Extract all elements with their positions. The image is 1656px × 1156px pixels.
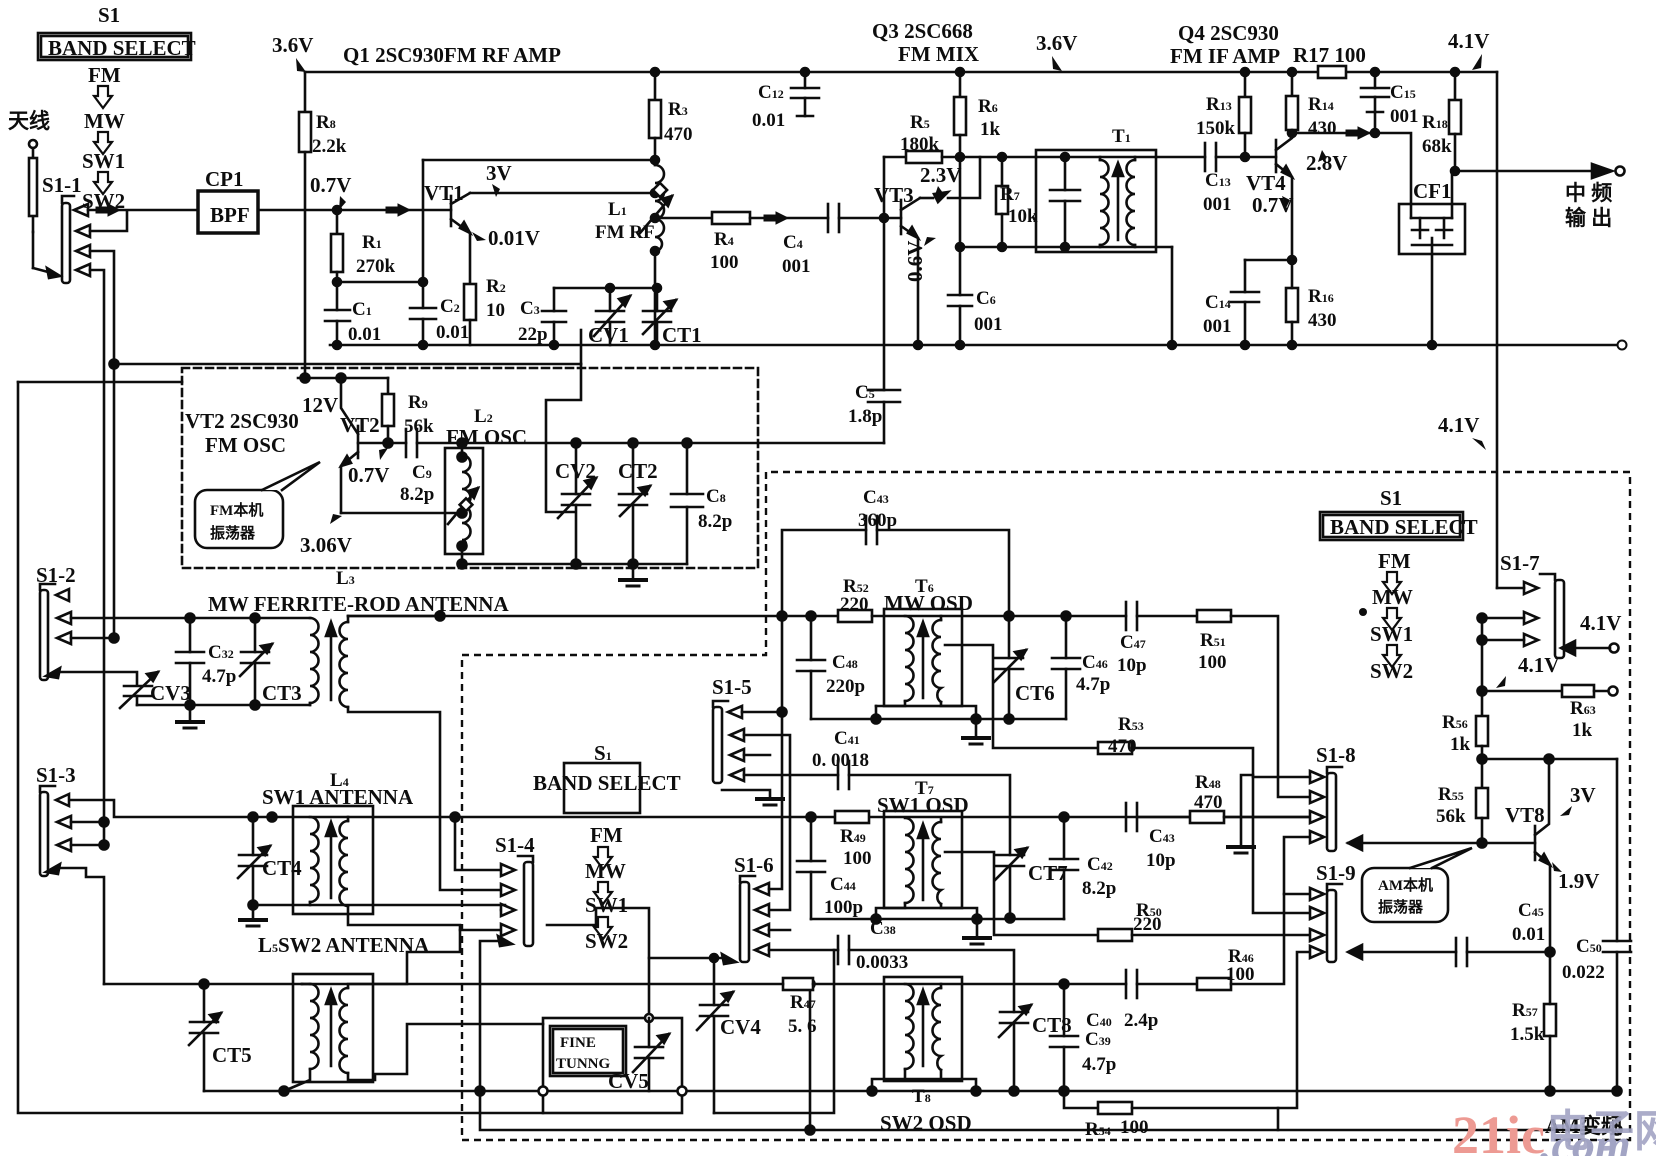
- box FINE TUNING assembly: [543, 1018, 682, 1113]
- resistor R57 1.5k: [1544, 1004, 1556, 1036]
- node dots on top rail: [651, 68, 659, 76]
- svg-text:4.1V: 4.1V: [1448, 29, 1489, 53]
- wire: R1 bottom to C2 node: [337, 281, 423, 284]
- svg-text:CT2: CT2: [618, 459, 658, 483]
- trimmer CT1: [656, 288, 659, 311]
- svg-text:0.6V: 0.6V: [903, 241, 927, 282]
- transformer T1: [1036, 150, 1156, 252]
- svg-text:SW1: SW1: [1370, 622, 1413, 646]
- svg-text:MW: MW: [1372, 585, 1413, 609]
- trimmer CT3: [251, 614, 260, 623]
- resistor R7 10k: [1001, 157, 1004, 186]
- svg-text:3.06V: 3.06V: [300, 533, 352, 557]
- transformer L3 MW ferrite rod antenna: [190, 617, 310, 620]
- svg-text:3V: 3V: [1570, 783, 1596, 807]
- svg-text:21ic: 21ic: [1452, 1105, 1545, 1156]
- switch S1-4: [524, 862, 533, 946]
- svg-text:FINE: FINE: [560, 1035, 596, 1051]
- wire: S1-4 c1 feed from SW1 line: [455, 817, 501, 870]
- resistor R49 100: [835, 811, 869, 823]
- svg-text:MW FERRITE-ROD ANTENNA: MW FERRITE-ROD ANTENNA: [208, 592, 509, 616]
- capacitor C9 8.2p: [405, 429, 408, 457]
- capacitor C41 0.0018: [837, 761, 840, 789]
- switch S1-6: [740, 882, 749, 962]
- switch S1 band select label box (right): [1320, 512, 1463, 540]
- svg-text:SW2 OSD: SW2 OSD: [880, 1111, 972, 1135]
- switch S1 band select label box (center): [564, 763, 640, 813]
- svg-text:CV2: CV2: [555, 459, 596, 483]
- svg-text:SW1: SW1: [82, 149, 125, 173]
- svg-text:天线: 天线: [8, 109, 50, 133]
- capacitor C47 10p (series in MW line): [1125, 602, 1128, 630]
- svg-text:56k: 56k: [404, 416, 434, 437]
- svg-text:FM: FM: [1378, 549, 1411, 573]
- resistor R53 470: [1098, 742, 1132, 754]
- svg-text:2.8V: 2.8V: [1306, 151, 1347, 175]
- wire: S1-8 c1 from R53-route ground pair: [1253, 776, 1310, 779]
- svg-text:FM IF AMP: FM IF AMP: [1170, 44, 1280, 68]
- speech bubble FM osc callout: [195, 490, 283, 548]
- ground below CT2: [632, 564, 635, 580]
- switch S1-1: [62, 203, 70, 283]
- svg-text:0.01V: 0.01V: [488, 226, 540, 250]
- wire: VT1 collector line to L1 tap: [470, 192, 655, 195]
- capacitor C39 4.7p: [1060, 980, 1069, 989]
- svg-text:FM MIX: FM MIX: [898, 42, 979, 66]
- svg-text:8.2p: 8.2p: [698, 511, 732, 532]
- svg-text:VT8: VT8: [1505, 803, 1545, 827]
- switch S1-7: [1555, 580, 1564, 658]
- inductor L1 FM RF: [654, 72, 657, 100]
- svg-text:Q4 2SC930: Q4 2SC930: [1178, 21, 1279, 45]
- wire: T7 tank bottom rail: [811, 918, 1064, 921]
- wire: VT8 collector supply line: [1482, 758, 1617, 761]
- wire: L5 secondary top routing to S1-4 c4: [348, 930, 460, 988]
- wire: S1-1 top contact to BPF: [88, 209, 198, 212]
- svg-text:BAND SELECT: BAND SELECT: [1330, 515, 1478, 539]
- trimmer CT6: [1008, 616, 1011, 658]
- filter CP1 BPF box: [198, 191, 258, 233]
- wire: S1-6 c3 stub: [769, 929, 790, 932]
- wire: S1-3 c2 to vertical: [71, 821, 104, 824]
- wire: T7 tank bottom shelf: [876, 903, 977, 919]
- resistor R47 5.6: [783, 978, 813, 990]
- svg-text:430: 430: [1308, 118, 1337, 139]
- svg-text:FM: FM: [88, 63, 121, 87]
- svg-text:CP1: CP1: [205, 167, 244, 191]
- svg-text:100: 100: [1226, 964, 1255, 985]
- svg-text:CV3: CV3: [150, 681, 191, 705]
- svg-text:220p: 220p: [826, 676, 865, 697]
- svg-text:CT7: CT7: [1028, 861, 1068, 885]
- wire: CV4 bottom link: [714, 950, 834, 1113]
- svg-text:0.7V: 0.7V: [310, 173, 351, 197]
- transistor VT8: [1534, 826, 1537, 860]
- svg-text:S1-2: S1-2: [36, 563, 76, 587]
- wire: S1-5 c1 to vertical: [742, 711, 782, 714]
- svg-text:Q3 2SC668: Q3 2SC668: [872, 19, 973, 43]
- svg-text:CF1: CF1: [1413, 179, 1452, 203]
- svg-text:MW OSD: MW OSD: [884, 591, 973, 615]
- transformer T7 SW1 OSD: [884, 811, 962, 908]
- wire: CT4 bottom line to S1-4: [253, 905, 505, 910]
- wire: emitter tap into L2: [341, 512, 462, 515]
- svg-text:CT4: CT4: [262, 856, 302, 880]
- trimmer CT4: [252, 817, 255, 855]
- svg-text:100: 100: [1120, 1117, 1149, 1138]
- capacitor C5 1.8p: [868, 389, 884, 392]
- svg-text:MW: MW: [585, 859, 626, 883]
- wire: S1-1 contact2 loop to main line: [90, 211, 127, 231]
- svg-text:10p: 10p: [1117, 655, 1147, 676]
- wire: BPF to VT1 base: [258, 209, 451, 212]
- svg-text:CV4: CV4: [720, 1015, 761, 1039]
- svg-text:0. 0018: 0. 0018: [812, 750, 869, 771]
- svg-text:BAND SELECT: BAND SELECT: [533, 771, 681, 795]
- svg-text:4.1V: 4.1V: [1518, 653, 1559, 677]
- svg-text:1k: 1k: [1572, 720, 1593, 741]
- wire: S1-1 contact3 long vertical: [90, 251, 114, 638]
- switch S1-5: [713, 707, 722, 783]
- svg-text:3.6V: 3.6V: [272, 33, 313, 57]
- capacitor C42 8.2p: [1060, 813, 1069, 822]
- wire: base feedback line to L1 top: [423, 159, 655, 162]
- wire: 3.6V top supply rail: [305, 71, 1318, 74]
- wire: FM OSC tank top line: [462, 442, 884, 445]
- trimmer CT5: [203, 984, 206, 1022]
- resistor R13 150k: [1244, 72, 1247, 97]
- trimmer CV1: [609, 288, 612, 311]
- svg-text:001: 001: [1203, 194, 1232, 215]
- resistor R51 100: [1197, 610, 1231, 622]
- wire: S1-6 wiper from CV5/CV4: [649, 957, 722, 960]
- resistor R5 180k: [884, 156, 906, 159]
- ground on MW tank bottom: [189, 705, 192, 722]
- svg-text:3.6V: 3.6V: [1036, 31, 1077, 55]
- svg-text:470: 470: [1108, 736, 1137, 757]
- antenna: [29, 140, 37, 148]
- svg-text:S1-3: S1-3: [36, 763, 76, 787]
- wire: SW1 antenna line: [71, 800, 1310, 817]
- transformer L4 SW1 antenna: [293, 806, 373, 914]
- svg-text:S1-8: S1-8: [1316, 743, 1356, 767]
- wire: S1-1 contact4 long vertical: [90, 270, 104, 845]
- wire: R5 left to C5 feed vertical: [883, 157, 886, 390]
- svg-text:100: 100: [710, 252, 739, 273]
- transistor VT1: [450, 196, 453, 226]
- svg-text:CT8: CT8: [1032, 1013, 1072, 1037]
- svg-text:FM本机: FM本机: [210, 501, 263, 519]
- wire: C3/CV1/CT1 top link: [554, 287, 657, 290]
- capacitor C48 220p: [810, 616, 813, 660]
- transformer T8 SW2 OSD: [884, 977, 962, 1081]
- svg-text:SW2: SW2: [585, 929, 628, 953]
- svg-text:MW: MW: [84, 109, 125, 133]
- svg-text:FM RF: FM RF: [595, 222, 655, 243]
- svg-text:68k: 68k: [1422, 136, 1452, 157]
- capacitor C45 0.01: [1455, 938, 1458, 966]
- wire: AM ground rail: [204, 1090, 1618, 1093]
- wire: IF output: [1455, 170, 1592, 173]
- capacitor C43 360p bypass: [782, 530, 866, 616]
- filter CF1: [1399, 204, 1465, 254]
- switch S1-8: [1327, 773, 1336, 851]
- capacitor C2 0.01: [422, 160, 425, 308]
- capacitor C14 001: [1245, 259, 1292, 262]
- transformer T6 MW OSD: [884, 609, 962, 706]
- svg-text:R17 100: R17 100: [1293, 43, 1366, 67]
- switch S1-3: [40, 792, 48, 876]
- wire: L4 secondary bottom to S1-4: [348, 906, 501, 930]
- svg-text:2.3V: 2.3V: [920, 163, 961, 187]
- svg-text:0.0033: 0.0033: [856, 952, 908, 973]
- svg-text:0.022: 0.022: [1562, 962, 1605, 983]
- resistor R1 270k: [336, 210, 339, 234]
- wire: SW2 antenna line: [104, 983, 302, 986]
- trimmer CT2: [632, 443, 635, 494]
- speech bubble AM osc callout: [1362, 868, 1448, 922]
- svg-text:L5SW2 ANTENNA: L5SW2 ANTENNA: [258, 933, 430, 957]
- svg-text:10: 10: [486, 300, 505, 321]
- svg-text:4.7p: 4.7p: [1082, 1054, 1116, 1075]
- transformer L5 SW2 antenna: [293, 974, 373, 1082]
- capacitor C44 100p: [810, 817, 813, 861]
- capacitor C50 0.022: [1616, 759, 1619, 941]
- wire: antenna to S1-1 wiper: [33, 268, 52, 273]
- wire: FM ground rail: [330, 344, 1617, 347]
- wire: S1-6 c1 to vertical: [769, 712, 782, 889]
- svg-text:BPF: BPF: [210, 203, 250, 227]
- svg-text:SW2: SW2: [82, 189, 125, 213]
- svg-text:振荡器: 振荡器: [210, 524, 256, 542]
- capacitor C6 001: [948, 294, 972, 297]
- svg-text:S1: S1: [98, 3, 120, 27]
- svg-text:470: 470: [664, 124, 693, 145]
- svg-text:TUNNG: TUNNG: [556, 1056, 611, 1072]
- svg-text:SW1 OSD: SW1 OSD: [877, 793, 969, 817]
- svg-text:4.7p: 4.7p: [202, 666, 236, 687]
- trimmer CV4: [713, 958, 716, 1005]
- text labels top: [272, 19, 1489, 72]
- trimmer CT7: [996, 854, 1024, 857]
- svg-text:1.8p: 1.8p: [848, 406, 882, 427]
- capacitor C43b 10p (series in SW1 line): [1125, 803, 1128, 831]
- resistor R52 220: [838, 610, 872, 622]
- svg-text:56k: 56k: [1436, 806, 1466, 827]
- dashed box FM OSC section: [182, 368, 758, 568]
- svg-text:100p: 100p: [824, 897, 863, 918]
- wire: S1-2 wiper to CV3: [58, 672, 137, 684]
- wire: L1 tap output to R4: [655, 217, 712, 220]
- wire: S1-4 wiper long route to SW2 OSD: [480, 941, 1278, 1130]
- svg-text:180k: 180k: [900, 134, 940, 155]
- resistor R2 10: [464, 284, 476, 320]
- wire: tank bottom line: [960, 246, 1172, 249]
- wire: base line S1-8 wiper to VT8: [1482, 842, 1535, 845]
- svg-text:1k: 1k: [980, 119, 1001, 140]
- wire: S1-3 wiper to SW2 line: [58, 868, 104, 984]
- transistor VT2: [357, 426, 360, 458]
- svg-text:AM本机: AM本机: [1378, 876, 1433, 894]
- svg-text:1.5k: 1.5k: [1510, 1024, 1545, 1045]
- svg-text:电子网: 电子网: [1546, 1107, 1656, 1156]
- wire: 4.1V rail after R17: [1346, 71, 1497, 74]
- svg-text:10p: 10p: [1146, 850, 1176, 871]
- svg-text:FM: FM: [590, 823, 623, 847]
- resistor R55 56k: [1476, 788, 1488, 818]
- wire: SW2 OSD line components: [806, 980, 815, 989]
- resistor R9 56k: [387, 378, 390, 394]
- svg-text:S1: S1: [1380, 486, 1402, 510]
- svg-text:2.2k: 2.2k: [312, 136, 347, 157]
- svg-text:2.4p: 2.4p: [1124, 1010, 1158, 1031]
- trimmer CV5: [645, 1014, 653, 1022]
- wire: branch to S1-9 c1: [1284, 893, 1310, 896]
- wire: FM OSC supply rail: [298, 377, 388, 380]
- wire: 4.1V vertical feed to AM section: [1496, 72, 1499, 588]
- trimmer CT8: [1000, 1011, 1028, 1014]
- capacitor C4 001: [827, 204, 830, 232]
- svg-text:4.1V: 4.1V: [1580, 611, 1621, 635]
- svg-text:100: 100: [843, 848, 872, 869]
- svg-text:VT2: VT2: [340, 413, 380, 437]
- transistor VT3: [900, 200, 903, 234]
- capacitor C38 0.0033: [837, 936, 840, 964]
- capacitor C46 4.7p: [1065, 616, 1068, 658]
- svg-text:3V: 3V: [486, 161, 512, 185]
- svg-text:CV1: CV1: [588, 323, 629, 347]
- svg-text:0.01: 0.01: [1512, 924, 1545, 945]
- wire: 4.1V feed to S1-7 c1: [1497, 587, 1524, 590]
- svg-text:4.7p: 4.7p: [1076, 674, 1110, 695]
- switch S1-9: [1327, 890, 1336, 962]
- resistor R50 220: [1098, 929, 1132, 941]
- inductor L2 FM OSC: [445, 448, 483, 554]
- capacitor C1 0.01: [325, 309, 350, 312]
- wire: S1-5 c4 to C41: [744, 774, 838, 777]
- trimmer CV3: [124, 685, 152, 688]
- svg-text:1k: 1k: [1450, 734, 1471, 755]
- svg-text:FM OSC: FM OSC: [446, 425, 527, 449]
- svg-text:VT3: VT3: [874, 183, 914, 207]
- svg-text:CT6: CT6: [1015, 681, 1055, 705]
- wire: S1-3 c3 stub: [71, 844, 104, 847]
- resistor R63 1k: [1482, 690, 1562, 693]
- svg-text:001: 001: [782, 256, 811, 277]
- svg-text:220: 220: [840, 594, 869, 615]
- svg-text:4.1V: 4.1V: [1438, 413, 1479, 437]
- capacitor C15 001: [1374, 72, 1377, 88]
- transistor VT4: [1275, 140, 1278, 172]
- wire: T7 tap to R50: [945, 852, 1098, 935]
- resistor R54 100: [1060, 1087, 1069, 1096]
- wire: SW2 main line: [302, 983, 783, 986]
- svg-text:振荡器: 振荡器: [1378, 898, 1424, 916]
- wire: SW1 OSD line components: [807, 813, 816, 822]
- svg-text:S1-4: S1-4: [495, 833, 535, 857]
- wire: CV1 link line into CV2: [114, 363, 581, 366]
- svg-text:CV5: CV5: [608, 1069, 649, 1093]
- wire: T6 tap to R53: [945, 645, 1098, 748]
- ground on T6 rail: [975, 719, 978, 736]
- trimmer CV2: [575, 443, 578, 494]
- wire: S1-2 c2 to MW tank line: [71, 617, 190, 620]
- svg-text:150k: 150k: [1196, 118, 1236, 139]
- dashed AM section box: [462, 472, 1630, 1140]
- wire: S1-5 c3 stub: [744, 754, 770, 757]
- svg-text:001: 001: [1203, 316, 1232, 337]
- capacitor C40 2.4p (series in SW2 line): [1125, 970, 1128, 998]
- svg-text:Q1 2SC930FM RF AMP: Q1 2SC930FM RF AMP: [343, 43, 561, 67]
- wire: CV1 bottom link down to FM OSC tuning line: [580, 330, 583, 364]
- svg-text:12V: 12V: [302, 393, 338, 417]
- svg-text:5. 6: 5. 6: [788, 1016, 817, 1037]
- capacitor C8 8.2p: [686, 443, 689, 494]
- resistor R56 1k: [1476, 716, 1488, 746]
- wire: VT2 base line: [358, 442, 406, 445]
- svg-text:270k: 270k: [356, 256, 396, 277]
- svg-text:0.7V: 0.7V: [348, 463, 389, 487]
- svg-text:22p: 22p: [518, 324, 548, 345]
- wire: T6 tank bottom rail: [811, 718, 1066, 721]
- svg-text:1.9V: 1.9V: [1558, 869, 1599, 893]
- svg-text:SW1 ANTENNA: SW1 ANTENNA: [262, 785, 414, 809]
- svg-text:FM OSC: FM OSC: [205, 433, 286, 457]
- switch S1 band select label box (top-left): [38, 33, 191, 60]
- resistor R14 430: [1291, 72, 1294, 96]
- resistor R48 470: [1190, 811, 1224, 823]
- svg-text:001: 001: [1390, 106, 1419, 127]
- svg-text:430: 430: [1308, 310, 1337, 331]
- resistor R6 1k: [959, 72, 962, 97]
- svg-text:SW2: SW2: [1370, 659, 1413, 683]
- wire: MW OSD main line (center): [348, 615, 838, 618]
- capacitor C12 0.01: [804, 72, 807, 88]
- resistor R4 100: [712, 212, 750, 224]
- svg-text:470: 470: [1194, 792, 1223, 813]
- capacitor C3 22p: [553, 288, 556, 311]
- wire: T8 tank bottom shelf to rail: [872, 1069, 976, 1091]
- svg-text:S1-7: S1-7: [1500, 551, 1540, 575]
- svg-text:输 出: 输 出: [1565, 206, 1612, 230]
- wire: VT1 emitter to R2: [469, 233, 472, 284]
- svg-text:CT5: CT5: [212, 1043, 252, 1067]
- svg-text:8.2p: 8.2p: [1082, 878, 1116, 899]
- ground stub near S1-8: [1241, 775, 1253, 845]
- svg-text:SW1: SW1: [585, 893, 628, 917]
- wire: MW tank bottom: [137, 704, 310, 707]
- svg-text:360p: 360p: [858, 510, 897, 531]
- svg-text:S1-5: S1-5: [712, 675, 752, 699]
- svg-text:220: 220: [1133, 914, 1162, 935]
- svg-text:VT1: VT1: [424, 181, 464, 205]
- svg-text:0.01: 0.01: [752, 110, 785, 131]
- outer wiring box left edge: [18, 382, 543, 1113]
- wire: T6 tank bottom shelf: [875, 706, 878, 719]
- resistor R18 68k: [1454, 72, 1457, 100]
- svg-text:S1-9: S1-9: [1316, 861, 1356, 885]
- wire: S1-7 c2/c3 to supply vertical: [1482, 618, 1524, 716]
- svg-text:CT1: CT1: [662, 323, 702, 347]
- svg-text:10k: 10k: [1008, 206, 1038, 227]
- wire: MW secondary output to S1-4: [348, 616, 501, 890]
- resistor R46 100: [1197, 978, 1231, 990]
- svg-text:VT2 2SC930: VT2 2SC930: [185, 409, 299, 433]
- svg-text:100: 100: [1198, 652, 1227, 673]
- wire: S1-5 wiper ground: [722, 790, 770, 797]
- svg-text:0.01: 0.01: [348, 324, 381, 345]
- svg-text:中 频: 中 频: [1565, 181, 1612, 205]
